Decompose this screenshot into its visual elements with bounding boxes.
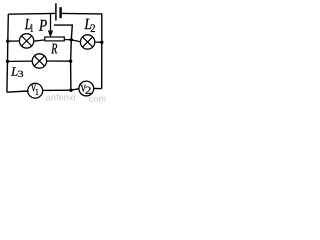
wire bottom-left to V1 <box>7 91 28 92</box>
junction dot left L3 row <box>6 60 9 63</box>
background <box>0 0 107 102</box>
wire mid rail junction to V2 <box>71 89 79 91</box>
label L2 <box>84 19 95 32</box>
rheostat wiper arrowhead <box>49 30 53 35</box>
wire left rail <box>7 14 8 92</box>
wire rheostat to mid rail <box>64 39 71 41</box>
label R <box>51 44 57 54</box>
lamp L2 <box>80 35 94 49</box>
lamp L3 <box>32 54 46 68</box>
wire L2 to right rail <box>95 41 102 43</box>
watermark text .com <box>89 97 106 102</box>
voltmeter V1 <box>28 83 43 98</box>
watermark text left <box>46 94 75 101</box>
junction dot L2 out / right rail <box>100 41 103 44</box>
label P <box>39 20 47 31</box>
wire left rail to L1 <box>8 40 20 42</box>
battery short thick plate (-) <box>59 7 61 18</box>
battery long plate (+) <box>55 3 57 20</box>
wire V2 to right rail <box>94 88 102 90</box>
junction dot left L1 row <box>6 40 9 43</box>
wire V1 to mid rail junction <box>43 89 71 91</box>
rheostat body R <box>45 37 65 41</box>
wire mid rail to L2 <box>71 40 80 42</box>
wire right rail <box>101 14 103 89</box>
junction dot L3 out / mid rail <box>69 60 72 63</box>
wire L3 to mid rail <box>47 60 71 62</box>
wire left rail to L3 <box>8 60 33 62</box>
rheostat wiper stem P <box>50 13 52 33</box>
voltmeter V2 <box>79 81 94 96</box>
wire top-left (battery + to left rail) <box>8 12 55 15</box>
wire L1 to rheostat <box>34 40 45 41</box>
junction dot bottom wire / mid rail <box>69 89 72 92</box>
label L1 <box>25 19 33 32</box>
junction dot rheostat out / L2 in <box>70 38 73 41</box>
label L3 <box>11 67 23 76</box>
lamp L1 <box>19 34 33 48</box>
wire top-right (battery - to right rail) <box>62 12 103 15</box>
wire battery tap to mid rail (down to bottom) <box>54 25 72 90</box>
